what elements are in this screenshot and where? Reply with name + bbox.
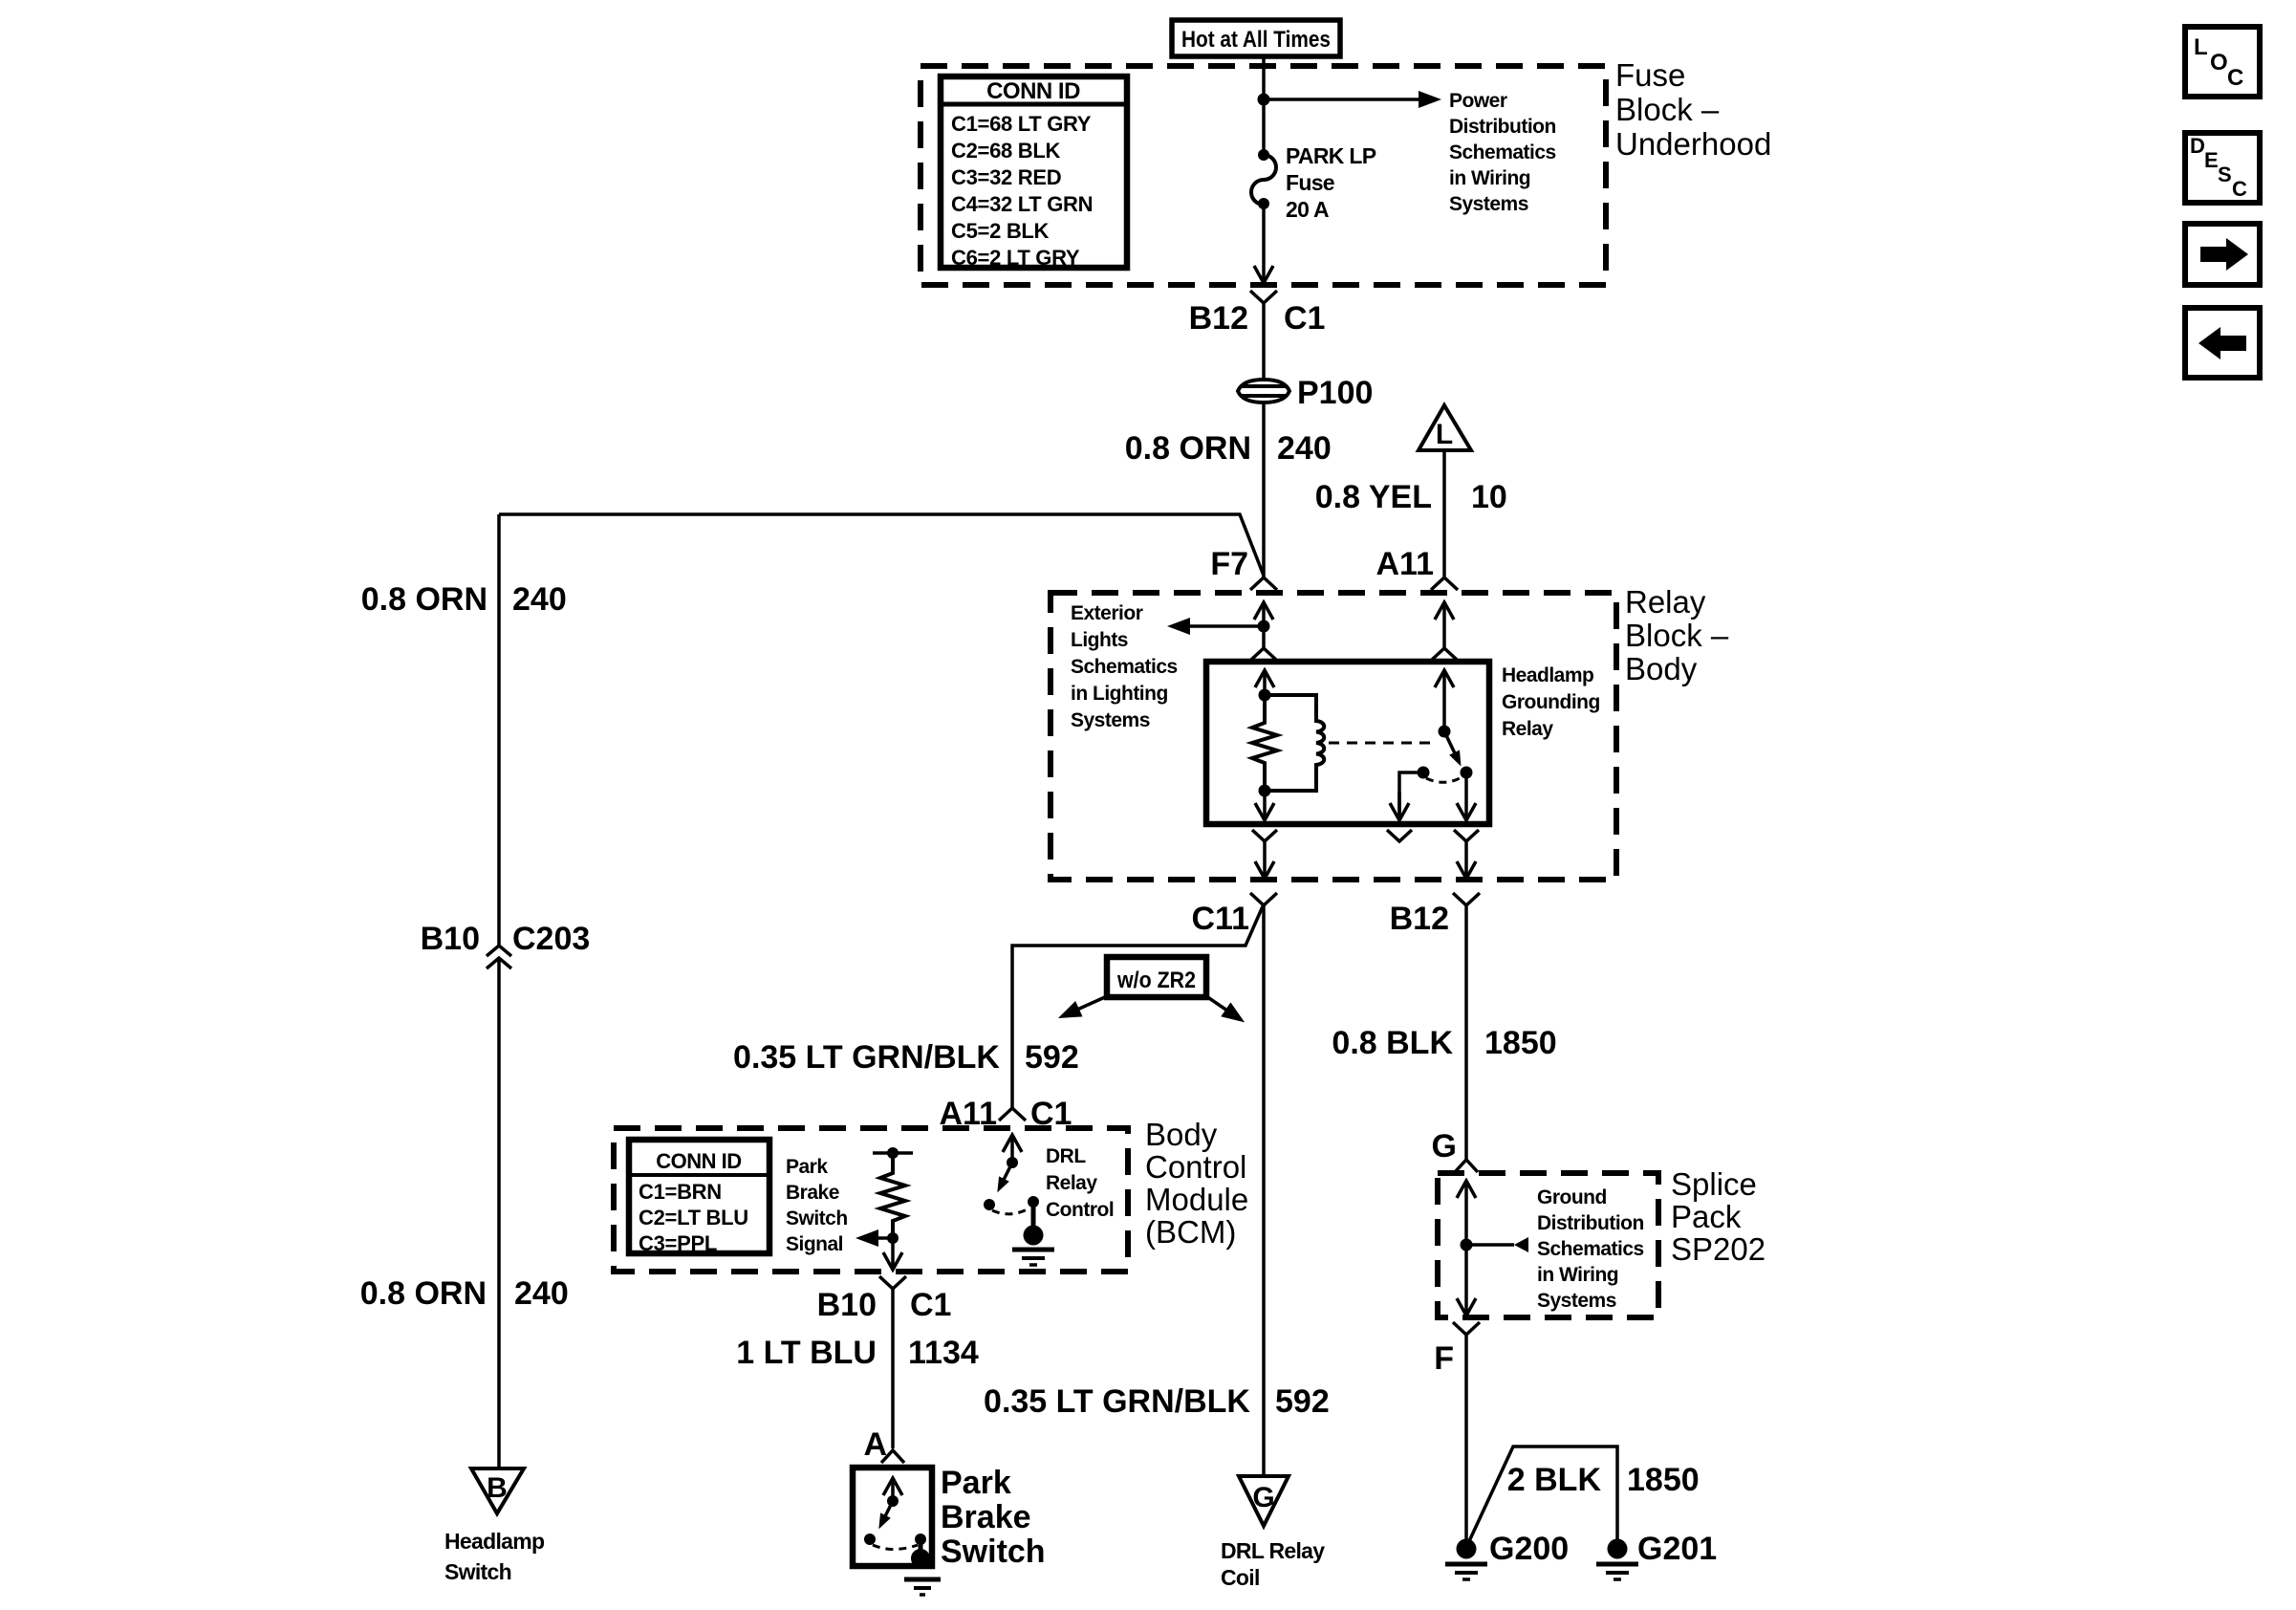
- node: exterior lights tap: [1258, 620, 1270, 633]
- exit chevron B12: [1453, 893, 1480, 905]
- svg-text:Ground: Ground: [1537, 1186, 1607, 1208]
- node: normally-closed contact: [1418, 767, 1430, 779]
- svg-text:592: 592: [1275, 1383, 1330, 1420]
- svg-text:DRL: DRL: [1046, 1145, 1086, 1167]
- svg-text:G201: G201: [1637, 1531, 1717, 1567]
- svg-text:C1: C1: [1284, 300, 1325, 337]
- svg-text:Module: Module: [1145, 1182, 1248, 1217]
- BCM dashed outline: [614, 1128, 1128, 1272]
- svg-text:Systems: Systems: [1071, 709, 1150, 731]
- svg-text:w/o ZR2: w/o ZR2: [1116, 968, 1196, 993]
- svg-text:C6=2 LT GRY: C6=2 LT GRY: [951, 246, 1080, 270]
- svg-text:S: S: [2218, 163, 2232, 186]
- svg-text:A11: A11: [1376, 546, 1435, 582]
- svg-text:Fuse: Fuse: [1615, 57, 1685, 93]
- svg-text:1850: 1850: [1627, 1462, 1700, 1498]
- wire relay to block edge C11: [1263, 841, 1267, 878]
- svg-text:Schematics: Schematics: [1537, 1238, 1644, 1260]
- node: coil bottom: [1259, 785, 1271, 797]
- wire end chevron at relay block F7: [1250, 577, 1277, 590]
- wire F to ground G200: [1464, 1335, 1468, 1539]
- node: DRL driver pivot: [1007, 1157, 1018, 1168]
- svg-text:Switch: Switch: [786, 1207, 848, 1229]
- svg-text:240: 240: [512, 581, 567, 618]
- park brake ground strokes: [904, 1577, 941, 1582]
- wire from Hot at All Times into fuse block: [1262, 56, 1266, 155]
- inline connector C203: [487, 946, 511, 956]
- svg-text:Headlamp: Headlamp: [1502, 664, 1593, 686]
- DRL relay control entry arrow: [1010, 1136, 1014, 1163]
- svg-text:E: E: [2204, 148, 2219, 172]
- svg-text:1850: 1850: [1484, 1025, 1557, 1061]
- break chevrons below relay: [1252, 830, 1277, 841]
- svg-text:Coil: Coil: [1221, 1565, 1260, 1590]
- svg-text:Underhood: Underhood: [1615, 126, 1771, 162]
- connector ID table (fuse block): [941, 76, 1127, 268]
- DRL driver switch arm: [1004, 1163, 1012, 1180]
- svg-text:C3=32 RED: C3=32 RED: [951, 165, 1061, 189]
- relay coil element: [1265, 695, 1324, 791]
- power feed label: Hot at All Times: [1172, 20, 1340, 56]
- svg-text:B10: B10: [817, 1287, 877, 1323]
- svg-text:in Wiring: in Wiring: [1449, 167, 1530, 189]
- coil to contact dashed link: [1329, 742, 1438, 745]
- svg-text:C11: C11: [1192, 901, 1250, 937]
- wire B12 to P100: [1262, 303, 1266, 379]
- ground G201 strokes: [1596, 1562, 1638, 1567]
- svg-text:Block –: Block –: [1615, 92, 1720, 127]
- svg-text:Relay: Relay: [1502, 718, 1553, 740]
- w/o ZR2 pointer arrows: [1077, 996, 1107, 1010]
- park brake switch outline: [853, 1468, 932, 1566]
- svg-text:B: B: [487, 1472, 508, 1504]
- svg-text:Control: Control: [1046, 1199, 1114, 1221]
- NC contact stub wire: [1399, 772, 1423, 819]
- svg-text:G200: G200: [1489, 1531, 1569, 1567]
- svg-text:PARK LP: PARK LP: [1286, 143, 1376, 168]
- svg-text:592: 592: [1025, 1039, 1079, 1076]
- svg-text:240: 240: [1277, 430, 1332, 467]
- node: DRL ground contact: [1028, 1196, 1039, 1207]
- off-page triangle G to DRL relay coil: [1239, 1476, 1289, 1526]
- park brake ground stem: [919, 1539, 923, 1553]
- svg-text:Schematics: Schematics: [1071, 656, 1178, 678]
- svg-text:L: L: [2194, 34, 2208, 60]
- forward arrow button: [2185, 224, 2260, 285]
- fuse block dashed outline: [921, 66, 1606, 285]
- reference arrow park brake switch signal: [877, 1236, 893, 1240]
- coil-side exit arrow: [1263, 791, 1267, 819]
- reference arrow to Exterior Lights: [1188, 624, 1264, 628]
- node: switch pivot (park brake): [887, 1495, 899, 1507]
- entry arrow at F7: [1262, 603, 1266, 626]
- pass-through grommet P100: [1238, 380, 1289, 402]
- svg-text:A: A: [863, 1426, 887, 1463]
- svg-text:B12: B12: [1189, 300, 1248, 337]
- svg-text:CONN ID: CONN ID: [656, 1149, 741, 1173]
- node: DRL driver contact: [984, 1199, 995, 1210]
- connector ID table (BCM): [629, 1140, 769, 1253]
- svg-text:10: 10: [1471, 479, 1507, 515]
- relay coil-side entry arrow: [1263, 671, 1267, 695]
- svg-text:0.8 BLK: 0.8 BLK: [1332, 1025, 1453, 1061]
- svg-text:L: L: [1436, 419, 1453, 450]
- wire: fuse to fuse block edge: [1262, 204, 1266, 282]
- svg-text:Signal: Signal: [786, 1233, 843, 1255]
- ground G200 strokes: [1445, 1562, 1487, 1567]
- svg-text:P100: P100: [1297, 375, 1373, 411]
- svg-text:CONN ID: CONN ID: [986, 78, 1080, 104]
- svg-text:Hot at All Times: Hot at All Times: [1181, 27, 1331, 53]
- wire end chevron at splice pack: [1455, 1160, 1478, 1172]
- node: splice SP202: [1461, 1239, 1473, 1251]
- park brake switch arm: [885, 1501, 893, 1516]
- svg-text:Grounding: Grounding: [1502, 691, 1600, 713]
- svg-text:Switch: Switch: [941, 1534, 1046, 1570]
- exit chevron B10: [879, 1276, 906, 1289]
- wire L to relay block, circuit 10: [1442, 450, 1446, 577]
- node: park brake signal tap: [887, 1232, 899, 1244]
- signal wire to BCM edge: [891, 1238, 895, 1269]
- relay contact-side entry arrow: [1442, 671, 1446, 731]
- svg-text:O: O: [2210, 50, 2228, 76]
- svg-text:Headlamp: Headlamp: [444, 1529, 545, 1554]
- entry arrow at A11: [1442, 603, 1446, 648]
- svg-text:2 BLK: 2 BLK: [1507, 1462, 1602, 1498]
- svg-text:Brake: Brake: [941, 1499, 1031, 1535]
- svg-text:C4=32 LT GRN: C4=32 LT GRN: [951, 192, 1093, 216]
- BCM internal ground strokes: [1012, 1248, 1054, 1252]
- svg-text:240: 240: [514, 1275, 569, 1312]
- svg-text:0.8 ORN: 0.8 ORN: [1125, 430, 1251, 467]
- svg-text:in Lighting: in Lighting: [1071, 683, 1168, 705]
- svg-text:C3=PPL: C3=PPL: [639, 1231, 717, 1255]
- svg-text:Body: Body: [1145, 1117, 1218, 1152]
- svg-text:Park: Park: [786, 1156, 828, 1178]
- svg-text:Relay: Relay: [1625, 584, 1706, 620]
- fuse F1 PARK LP 20A: [1258, 149, 1269, 161]
- park brake ground ball: [911, 1549, 930, 1568]
- back arrow button: [2185, 308, 2260, 378]
- svg-text:C1=68 LT GRY: C1=68 LT GRY: [951, 112, 1092, 136]
- svg-text:20 A: 20 A: [1286, 197, 1329, 222]
- svg-text:Distribution: Distribution: [1449, 116, 1556, 138]
- svg-text:C5=2 BLK: C5=2 BLK: [951, 219, 1050, 243]
- svg-text:Pack: Pack: [1671, 1199, 1742, 1234]
- BCM park brake resistor: [880, 1153, 905, 1238]
- break chevron above relay: [1251, 648, 1276, 660]
- wire to ground G201, circuit 1850: [1469, 1447, 1617, 1541]
- connector break at fuse block exit: [1250, 291, 1277, 303]
- svg-text:DRL Relay: DRL Relay: [1221, 1538, 1325, 1563]
- node: coil top: [1259, 689, 1271, 702]
- svg-text:D: D: [2190, 134, 2205, 158]
- BCM pull-up resistor top bar: [873, 1151, 913, 1155]
- off-page triangle L: [1419, 405, 1471, 450]
- svg-text:C203: C203: [512, 921, 590, 957]
- svg-text:0.35 LT GRN/BLK: 0.35 LT GRN/BLK: [733, 1039, 1000, 1076]
- reference arrow Ground Distribution: [1466, 1243, 1514, 1247]
- wire P100 to relay block, circuit 240: [1262, 403, 1266, 577]
- ground G201 ball: [1608, 1539, 1628, 1559]
- node: switch pivot: [1439, 726, 1451, 738]
- wire relay to block edge B12: [1464, 841, 1468, 878]
- svg-text:G: G: [1432, 1128, 1457, 1164]
- svg-text:Block –: Block –: [1625, 618, 1729, 653]
- BCM internal ground ball: [1024, 1226, 1044, 1246]
- svg-text:in Wiring: in Wiring: [1537, 1264, 1618, 1286]
- svg-text:Schematics: Schematics: [1449, 141, 1556, 163]
- wire C11 branch to BCM: [1012, 906, 1263, 1108]
- switch entry arrow: [891, 1479, 895, 1501]
- svg-text:Switch: Switch: [444, 1559, 511, 1584]
- option tag w/o ZR2: [1107, 957, 1206, 997]
- node: normally-open contact: [1461, 767, 1473, 779]
- park brake dashed travel arc: [873, 1545, 918, 1550]
- svg-text:0.8 ORN: 0.8 ORN: [360, 1275, 487, 1312]
- headlamp grounding relay outline: [1206, 662, 1489, 824]
- svg-text:C2=68 BLK: C2=68 BLK: [951, 139, 1060, 163]
- DRL ground stem: [1031, 1202, 1036, 1227]
- splice pack dashed outline: [1438, 1173, 1658, 1317]
- svg-text:Brake: Brake: [786, 1182, 839, 1204]
- LOC button box: [2185, 27, 2260, 97]
- svg-text:Splice: Splice: [1671, 1166, 1757, 1202]
- exit chevron C11: [1250, 893, 1277, 905]
- svg-text:Distribution: Distribution: [1537, 1212, 1644, 1234]
- svg-text:(BCM): (BCM): [1145, 1214, 1236, 1250]
- svg-text:Park: Park: [941, 1465, 1011, 1501]
- svg-text:C1=BRN: C1=BRN: [639, 1180, 722, 1204]
- wire B12 to splice pack, circuit 1850: [1464, 905, 1468, 1160]
- splice entry arrow: [1464, 1182, 1468, 1245]
- svg-text:Fuse: Fuse: [1286, 170, 1334, 195]
- relay block dashed outline: [1051, 593, 1616, 880]
- svg-text:B12: B12: [1390, 901, 1449, 937]
- svg-text:C: C: [2227, 65, 2243, 91]
- svg-text:Control: Control: [1145, 1149, 1246, 1185]
- svg-text:B10: B10: [421, 921, 480, 957]
- svg-text:Body: Body: [1625, 651, 1698, 686]
- wire BCM to park brake switch, circuit 1134: [891, 1289, 895, 1448]
- svg-text:C1: C1: [910, 1287, 951, 1323]
- wire C11 to DRL relay coil, circuit 592: [1262, 905, 1266, 1476]
- relay movable contact arm: [1444, 731, 1455, 753]
- contact travel dashed arc: [1426, 777, 1462, 782]
- svg-text:Relay: Relay: [1046, 1172, 1097, 1194]
- node: park brake contact: [864, 1534, 876, 1545]
- exit chevron F: [1453, 1322, 1480, 1335]
- svg-text:0.35 LT GRN/BLK: 0.35 LT GRN/BLK: [984, 1383, 1250, 1420]
- svg-text:F: F: [1434, 1340, 1454, 1377]
- wire end chevron at relay block A11: [1431, 577, 1458, 590]
- DESC button box: [2185, 133, 2260, 203]
- node: park brake ground contact: [915, 1534, 926, 1545]
- wire end chevron at BCM: [999, 1108, 1026, 1120]
- svg-text:0.8 YEL: 0.8 YEL: [1315, 479, 1432, 515]
- DRL driver dashed travel arc: [992, 1207, 1030, 1214]
- node: resistor top: [887, 1147, 899, 1159]
- svg-text:SP202: SP202: [1671, 1231, 1765, 1267]
- splice exit arrow: [1464, 1245, 1468, 1315]
- svg-text:Lights: Lights: [1071, 629, 1128, 651]
- ground G200 ball: [1457, 1539, 1477, 1559]
- svg-text:C2=LT BLU: C2=LT BLU: [639, 1206, 748, 1229]
- wire end chevron at park brake switch: [881, 1450, 904, 1463]
- off-page triangle B to headlamp switch: [471, 1469, 524, 1513]
- svg-text:1134: 1134: [908, 1335, 979, 1371]
- svg-text:C: C: [2232, 177, 2247, 201]
- svg-text:Power: Power: [1449, 90, 1507, 112]
- svg-text:F7: F7: [1210, 546, 1248, 582]
- svg-text:G: G: [1252, 1482, 1274, 1513]
- svg-text:1 LT BLU: 1 LT BLU: [736, 1335, 877, 1371]
- reference arrow to Power Distribution Schematics: [1264, 98, 1420, 101]
- svg-text:Exterior: Exterior: [1071, 602, 1143, 624]
- svg-text:0.8 ORN: 0.8 ORN: [361, 581, 487, 618]
- relay resistor element: [1252, 695, 1277, 791]
- svg-text:Systems: Systems: [1449, 193, 1528, 215]
- svg-text:Systems: Systems: [1537, 1290, 1616, 1312]
- wire branch to headlamp switch: [499, 514, 1264, 576]
- node: fuse feed junction: [1258, 94, 1270, 106]
- NO contact exit arrow: [1464, 772, 1468, 819]
